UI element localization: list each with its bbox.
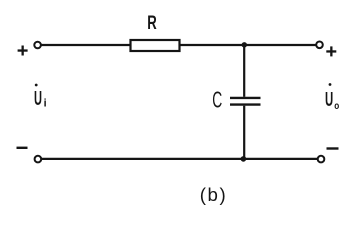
svg-text:R: R [147, 12, 157, 34]
svg-text:(b): (b) [200, 185, 228, 205]
svg-text:o: o [334, 101, 339, 112]
svg-text:C: C [212, 87, 222, 113]
svg-text:U: U [325, 89, 333, 111]
svg-text:i: i [44, 98, 47, 110]
svg-text:U: U [34, 88, 42, 110]
